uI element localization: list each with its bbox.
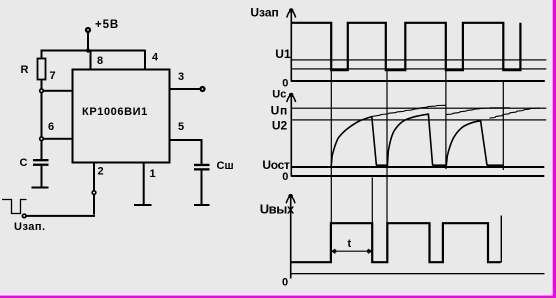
svg-text:C: C — [20, 157, 28, 169]
grid line G3 trigger fall 3 — [445, 70, 446, 169]
thin envelope staircase 1 — [372, 105, 446, 116]
time axis diagram 2 — [291, 175, 545, 177]
wire pin5 down to Cш — [201, 139, 203, 164]
white halo bottom — [0, 294, 552, 295]
Uc flat segment 2 — [432, 164, 446, 167]
svg-text:R: R — [21, 64, 29, 76]
svg-text:0: 0 — [282, 276, 288, 288]
t dimension arrow — [332, 249, 372, 254]
magenta border bottom — [0, 296, 556, 298]
junction node on +5V rail — [86, 48, 90, 52]
capacitor Cш — [194, 164, 210, 171]
wire resistor bottom to node — [41, 80, 43, 90]
thin envelope staircase 2 — [447, 108, 511, 115]
wire pin 2 to trigger — [26, 215, 95, 217]
svg-text:6: 6 — [48, 121, 54, 133]
svg-text:Uост: Uост — [262, 158, 290, 172]
node at pin 7 — [40, 89, 44, 93]
svg-text:1: 1 — [150, 168, 156, 180]
Uc waveform fin 2 — [387, 114, 432, 166]
grid line G2 trigger fall 2 — [386, 70, 387, 223]
low-level reference line — [292, 68, 547, 69]
axis Uзап vertical with arrow — [290, 10, 292, 81]
capacitor C — [33, 159, 49, 166]
grid line G4 trigger fall 4 lower — [501, 216, 502, 263]
U2 reference line — [292, 119, 547, 120]
white halo right — [551, 0, 552, 298]
wire pin 7 — [44, 90, 74, 92]
resistor R — [38, 59, 46, 80]
wire rail to resistor top — [41, 50, 43, 59]
svg-text:8: 8 — [97, 55, 103, 67]
svg-text:t: t — [348, 238, 352, 250]
wire +5V terminal to rail — [87, 32, 89, 50]
svg-text:Uп: Uп — [271, 103, 289, 117]
wire +5V rail — [41, 50, 146, 52]
grid line G1 trigger fall 1 — [331, 70, 332, 223]
wire capacitor C to ground bar — [41, 166, 43, 187]
thin envelope staircase 3 — [490, 108, 541, 118]
svg-text:Uзап: Uзап — [250, 6, 278, 20]
Uc waveform fin 1 — [331, 117, 376, 166]
svg-text:3: 3 — [178, 71, 184, 83]
pin 5 wire — [170, 139, 203, 141]
node at pin 6 — [40, 137, 44, 141]
Uост reference line — [292, 166, 545, 168]
pin 1 lead — [143, 163, 145, 205]
grid line G4 trigger fall 4 upper — [503, 81, 504, 170]
svg-text:U1: U1 — [275, 47, 291, 61]
ground bar under pin 1 — [134, 204, 152, 206]
pin 3 output wire — [170, 88, 201, 90]
ground bar under Cш — [194, 204, 210, 206]
svg-text:0: 0 — [282, 171, 288, 183]
Uc waveform fin 3 — [446, 121, 487, 166]
svg-text:Uвых: Uвых — [260, 202, 295, 217]
wire pin 6 — [44, 138, 74, 140]
svg-text:Сш: Сш — [217, 160, 234, 172]
wire node6 to capacitor C — [41, 141, 43, 160]
magenta border right — [553, 0, 556, 298]
ground bar under C — [32, 187, 49, 189]
svg-text:7: 7 — [50, 70, 56, 82]
svg-text:Uc: Uc — [272, 88, 286, 100]
pin 2 lead — [93, 163, 95, 215]
time axis diagram 3 — [291, 273, 545, 274]
node on pin 2 lead — [92, 191, 96, 195]
IC DA1 timer КР1006ВИ1 body — [73, 70, 170, 163]
svg-text:+5В: +5В — [95, 19, 119, 31]
grid line end of pulse t — [372, 178, 373, 224]
svg-text:2: 2 — [98, 166, 104, 178]
axis Uc vertical with arrow — [290, 94, 292, 177]
Uп reference line — [292, 108, 547, 109]
Uвых waveform trace — [292, 223, 501, 262]
Uc flat segment 3 — [487, 164, 503, 167]
Uзап waveform trace — [292, 23, 521, 70]
pin 8 notch right side / pin 4 lead — [144, 50, 146, 70]
svg-text:Uзап.: Uзап. — [14, 221, 46, 233]
axis Uвых vertical with arrow — [290, 195, 292, 279]
svg-text:КР1006ВИ1: КР1006ВИ1 — [82, 106, 148, 118]
+5V supply terminal — [86, 28, 90, 32]
trigger pulse symbol Uзап — [2, 200, 27, 214]
time axis diagram 1 — [291, 80, 545, 82]
pin 3 output terminal — [201, 87, 205, 91]
wire node7 to node6 — [41, 93, 43, 138]
Uc flat segment 1 — [376, 164, 387, 167]
U1 reference line — [292, 59, 547, 60]
trigger node — [22, 214, 26, 218]
pin 8 notch left side — [90, 50, 92, 70]
wire Cш to ground bar — [201, 171, 203, 205]
svg-text:5: 5 — [178, 121, 184, 133]
svg-text:4: 4 — [152, 51, 159, 63]
svg-text:U2: U2 — [272, 118, 288, 132]
